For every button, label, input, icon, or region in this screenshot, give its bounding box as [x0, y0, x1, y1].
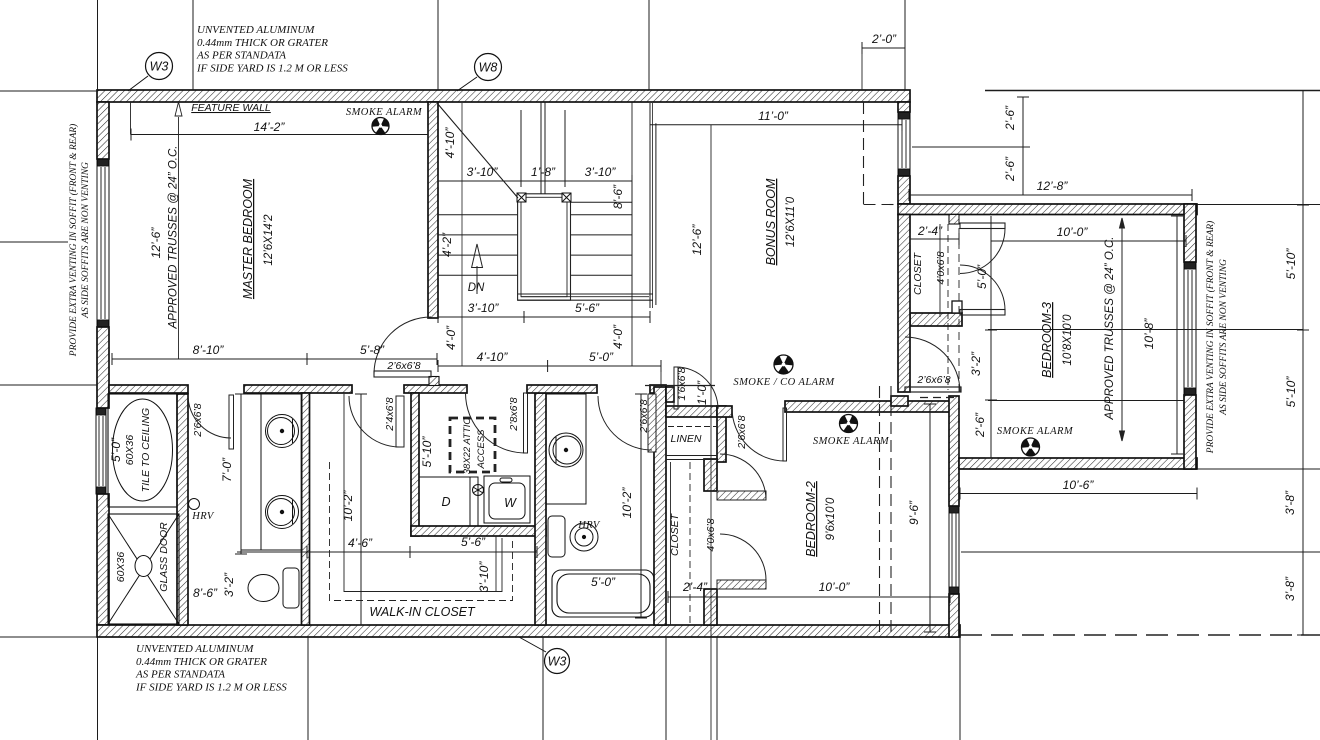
svg-text:10’-6”: 10’-6”	[1063, 478, 1095, 492]
door dash: bed3	[920, 397, 957, 399]
svg-text:12’-8”: 12’-8”	[1037, 179, 1069, 193]
stair treads left flight	[438, 215, 518, 276]
svg-text:BEDROOM-3: BEDROOM-3	[1040, 302, 1054, 378]
svg-text:3’-10”: 3’-10”	[477, 561, 491, 593]
window: master west	[97, 159, 109, 327]
dim line: bed3 10-0	[991, 235, 1186, 247]
wall: bath east / linen west	[654, 387, 666, 625]
callout W3 bottom	[519, 637, 570, 674]
dim line: ensuite 7-0	[235, 394, 247, 554]
smoke alarm bed2	[839, 415, 857, 433]
door leaf: bed3	[905, 387, 961, 392]
fixture: ensuite toilet	[248, 568, 299, 608]
wall: north exterior	[97, 90, 910, 102]
svg-text:11’-0”: 11’-0”	[758, 109, 789, 123]
door arc: bed2	[732, 408, 785, 461]
stair upper riser a	[540, 102, 542, 194]
margin line east: y204.5	[1197, 204, 1320, 206]
wall: linen east	[717, 408, 726, 462]
svg-text:W3: W3	[150, 60, 169, 74]
wall: ensuite north (master south w)	[109, 385, 188, 393]
dim line: 12-8	[909, 189, 1192, 201]
svg-text:10’-2”: 10’-2”	[341, 490, 355, 522]
grid line: stair wall top	[437, 0, 439, 90]
dim line: hall 4-10 5-0	[438, 360, 661, 372]
linen bottom line b	[666, 459, 717, 461]
fixture: bath toilet	[548, 516, 598, 557]
bonus open dashed vert	[863, 102, 865, 204]
svg-text:2’6x6’8: 2’6x6’8	[638, 399, 650, 433]
wall: closet2 east upper	[704, 459, 717, 491]
hall line y385.5	[645, 385, 715, 387]
svg-text:SMOKE ALARM: SMOKE ALARM	[346, 107, 423, 118]
svg-text:12’6X14’2: 12’6X14’2	[263, 214, 275, 266]
svg-text:3’-8”: 3’-8”	[1283, 490, 1297, 515]
dim line: closet3 2-4	[910, 233, 959, 245]
door arc: laundry	[466, 393, 526, 453]
linen bottom line a	[666, 455, 717, 457]
margin line west: y242	[0, 241, 68, 243]
wall: south exterior	[97, 625, 960, 637]
wall: stair west	[428, 102, 438, 318]
svg-text:5’-10”: 5’-10”	[420, 436, 434, 468]
wall: master south seg3	[404, 385, 467, 393]
margin line east: y552	[961, 551, 1320, 553]
fixture: dryer	[419, 477, 478, 526]
wic shelf line	[344, 394, 502, 592]
dim line: bath 10-2	[635, 394, 647, 618]
door arc: closet2 upper	[720, 454, 766, 500]
dim line: bed2 10-0	[668, 591, 950, 603]
svg-text:5’-8”: 5’-8”	[360, 343, 385, 357]
door leaf: bath	[648, 394, 656, 452]
grid line: note top	[192, 0, 194, 90]
svg-text:12’-6”: 12’-6”	[690, 224, 704, 256]
svg-text:GLASS DOOR: GLASS DOOR	[158, 522, 170, 592]
wall: step hall-bed2	[891, 396, 908, 406]
svg-text:APPROVED TRUSSES @ 24” O.C.: APPROVED TRUSSES @ 24” O.C.	[168, 146, 180, 330]
wic dashed rod	[330, 462, 513, 601]
attic access dashed box	[450, 418, 495, 472]
wall: bath north stub	[650, 385, 666, 393]
wall: laundry west	[411, 393, 419, 536]
fixture: bath sink	[549, 433, 583, 467]
svg-text:8’-10”: 8’-10”	[193, 343, 225, 357]
wall: bath north	[527, 385, 597, 393]
closet3 shelf line	[939, 224, 941, 317]
svg-text:2’6x6’8: 2’6x6’8	[386, 360, 420, 372]
svg-text:SMOKE ALARM: SMOKE ALARM	[813, 436, 890, 447]
margin line west: y385	[0, 384, 97, 386]
smoke alarm bed3	[1021, 438, 1039, 456]
svg-text:D: D	[441, 495, 450, 509]
grid line: west wall bottom	[97, 637, 99, 740]
svg-text:AS SIDE SOFFITS ARE NON VENTIN: AS SIDE SOFFITS ARE NON VENTING	[1219, 259, 1229, 416]
svg-text:5’-10”: 5’-10”	[1284, 376, 1298, 408]
svg-text:2’6x6’8: 2’6x6’8	[736, 415, 748, 449]
svg-text:2’6x6’8: 2’6x6’8	[192, 403, 204, 437]
svg-text:8’-6”: 8’-6”	[611, 184, 625, 209]
closet3 projection dashed	[958, 215, 960, 455]
fixture: bath vanity	[546, 394, 586, 504]
svg-text:PROVIDE EXTRA VENTING IN SOFFI: PROVIDE EXTRA VENTING IN SOFFIT (FRONT &…	[1205, 221, 1216, 454]
svg-text:4’-10”: 4’-10”	[477, 350, 509, 364]
wall: linen north	[666, 406, 726, 417]
window: bed3 jog	[898, 112, 910, 176]
svg-text:3’-8”: 3’-8”	[1283, 576, 1297, 601]
svg-text:5’-0”: 5’-0”	[591, 575, 616, 589]
door arc: bed3	[905, 337, 960, 392]
door leaf: wic corridor	[396, 396, 404, 447]
wic rod double line a	[495, 536, 497, 592]
bonus open dashed horiz	[864, 204, 899, 206]
svg-text:CLOSET: CLOSET	[669, 512, 681, 556]
grid line: bonus west top	[648, 0, 650, 90]
margin line east: y469	[1197, 468, 1320, 470]
margin line west: y637	[0, 636, 97, 638]
feature wall line	[130, 102, 132, 135]
svg-text:TILE TO CEILING: TILE TO CEILING	[140, 408, 152, 492]
stair flight edge line	[461, 103, 463, 366]
wall: bed3 east upper	[1184, 204, 1196, 262]
door arc: linen	[676, 367, 718, 409]
ext line: 2-0 left	[861, 48, 863, 90]
door leaf: closet2 lower	[717, 580, 766, 589]
wall: closet3 south	[910, 313, 962, 326]
smoke/co alarm bonus	[774, 355, 793, 374]
door leaf: linen 1-6	[674, 367, 678, 409]
svg-text:3’-2”: 3’-2”	[969, 351, 983, 376]
dim line: 2-0	[862, 42, 905, 54]
svg-text:60X36: 60X36	[115, 552, 127, 583]
wall: bed3-closet north	[898, 204, 1197, 215]
svg-text:1’-0”: 1’-0”	[695, 380, 709, 405]
stair dim ext left	[520, 110, 522, 181]
ext line: 2-6 mid	[912, 146, 1030, 148]
svg-text:HRV: HRV	[577, 520, 601, 531]
margin line east: y329.5	[988, 329, 1303, 331]
dim line: 4-6 5-6	[237, 546, 537, 558]
door leaf: closet2 upper	[717, 491, 766, 500]
svg-text:38X22 ATTIC: 38X22 ATTIC	[462, 418, 473, 475]
wall: bed3 west	[898, 215, 910, 393]
svg-text:5’-10”: 5’-10”	[1284, 248, 1298, 280]
wall: west exterior upper	[97, 102, 109, 159]
svg-text:4’-10”: 4’-10”	[443, 127, 457, 159]
svg-text:BEDROOM-2: BEDROOM-2	[804, 481, 818, 557]
svg-text:MASTER BEDROOM: MASTER BEDROOM	[241, 178, 255, 299]
dim line: 10-6	[960, 488, 1197, 500]
margin line west: y91	[0, 90, 97, 92]
dim line: stair top	[438, 175, 632, 187]
stair cut line x632	[631, 102, 633, 366]
wall: closet2 east lower	[704, 589, 717, 625]
door leaf: closet3 lower	[960, 310, 1005, 316]
dim line: bed2 9-6	[924, 404, 936, 632]
door leaf: ensuite	[229, 395, 234, 449]
closet2 rod dashed	[689, 462, 691, 625]
grid line: west wall top	[97, 0, 99, 90]
door arc: closet2 lower	[720, 534, 766, 580]
wall: closet3 south notch	[952, 301, 962, 313]
svg-text:5’-0”: 5’-0”	[589, 350, 614, 364]
stair east rail b	[652, 103, 654, 308]
wall: bed2 north	[785, 401, 950, 412]
svg-text:2’-4”: 2’-4”	[917, 224, 943, 238]
wall: west exterior mid	[97, 327, 109, 408]
svg-text:DN: DN	[468, 282, 485, 294]
wall: tub-vanity divider	[177, 394, 188, 625]
svg-text:14’-2”: 14’-2”	[254, 120, 286, 134]
svg-text:5’-6”: 5’-6”	[575, 301, 600, 315]
svg-text:2’-6”: 2’-6”	[1003, 156, 1017, 182]
svg-text:CLOSET: CLOSET	[912, 251, 924, 295]
svg-text:10’-0”: 10’-0”	[819, 580, 851, 594]
svg-text:2’8x6’8: 2’8x6’8	[508, 397, 520, 431]
dim line: 2-6 stack	[1017, 97, 1029, 195]
door arc: closet3 upper	[960, 229, 1005, 274]
svg-text:APPROVED TRUSSES @ 24” O.C.: APPROVED TRUSSES @ 24” O.C.	[1104, 237, 1116, 421]
svg-text:12’-6”: 12’-6”	[149, 227, 163, 259]
stair diagonal cut	[437, 103, 518, 198]
grid line: linen wall bottom	[665, 637, 667, 740]
svg-text:9’6x10’0: 9’6x10’0	[825, 497, 837, 540]
callout W8	[457, 54, 502, 92]
stair upper riser b	[544, 102, 546, 194]
stair newel post right	[562, 193, 571, 202]
wall: bed2 north stub	[717, 406, 732, 417]
margin line east: y90.5	[985, 90, 1320, 92]
fixture: washer	[484, 476, 530, 523]
bed2 truss dashed a	[879, 386, 881, 632]
callout W3 top	[128, 53, 173, 92]
wall: stair west foot block	[429, 377, 439, 386]
hall tick x661	[660, 363, 662, 386]
window: bed2 east	[949, 506, 959, 594]
svg-text:PROVIDE EXTRA VENTING IN SOFFI: PROVIDE EXTRA VENTING IN SOFFIT (FRONT &…	[68, 124, 79, 357]
svg-text:W3: W3	[548, 655, 567, 669]
wall: west exterior lower	[97, 494, 109, 625]
svg-text:4’-6”: 4’-6”	[348, 536, 373, 550]
svg-text:10’-2”: 10’-2”	[620, 487, 634, 519]
smoke alarm master	[372, 118, 389, 135]
stairwell opening	[518, 194, 653, 300]
svg-text:2’-0”: 2’-0”	[871, 32, 897, 46]
dim line: bed3 trusses arrow	[1120, 218, 1125, 441]
svg-text:5’-0”: 5’-0”	[109, 437, 123, 462]
svg-text:4’0x6’8: 4’0x6’8	[935, 251, 947, 284]
dim line: bed3 10-8	[1171, 216, 1183, 454]
projection line: bed3 sill y400	[988, 400, 1184, 402]
door arc: ensuite	[188, 395, 231, 438]
svg-text:5’-6”: 5’-6”	[461, 535, 486, 549]
dim line: master width 14-2	[131, 129, 428, 141]
svg-text:ACCESS: ACCESS	[476, 429, 487, 470]
svg-text:SMOKE / CO ALARM: SMOKE / CO ALARM	[733, 377, 835, 388]
closet3 rod dashed	[947, 224, 949, 390]
fixture: ensuite sink 2	[266, 496, 299, 529]
window: bed3 east	[1184, 262, 1196, 395]
svg-text:5’-0”: 5’-0”	[975, 264, 989, 289]
bonus west line	[655, 123, 657, 305]
stair DN arrow	[472, 244, 483, 294]
door arc: master-hall	[374, 317, 431, 374]
svg-text:BONUS ROOM: BONUS ROOM	[764, 178, 778, 265]
fixture: ensuite shower	[108, 514, 179, 624]
svg-text:10’8X10’0: 10’8X10’0	[1062, 314, 1074, 366]
window: ensuite west	[96, 408, 106, 494]
svg-text:10’-8”: 10’-8”	[1142, 318, 1156, 350]
wall: closet3 top notch	[949, 215, 959, 225]
svg-text:SMOKE ALARM: SMOKE ALARM	[997, 426, 1074, 437]
svg-text:4’-0”: 4’-0”	[444, 325, 458, 350]
svg-text:1’6x6’8: 1’6x6’8	[676, 367, 688, 400]
wall: bed3 west jog lower	[898, 176, 910, 204]
svg-text:2’-6”: 2’-6”	[1003, 105, 1017, 131]
wall: bath west	[535, 393, 546, 625]
svg-text:12’6X11’0: 12’6X11’0	[785, 196, 797, 247]
svg-text:1’-8”: 1’-8”	[531, 165, 556, 179]
svg-text:W8: W8	[479, 61, 498, 75]
margin dashed east: y635	[960, 634, 1320, 636]
wall: bed3 east lower	[1184, 395, 1196, 469]
svg-text:AS SIDE SOFFITS ARE NON VENTIN: AS SIDE SOFFITS ARE NON VENTING	[81, 162, 91, 319]
svg-text:7’-0”: 7’-0”	[220, 457, 234, 482]
svg-text:4’0x6’8: 4’0x6’8	[705, 518, 717, 551]
wall: master south seg2	[244, 385, 352, 393]
fixture: ensuite tub	[108, 394, 177, 507]
stair dim ext right	[564, 110, 566, 181]
svg-text:4’-0”: 4’-0”	[611, 324, 625, 349]
grid line: jog corner top	[904, 0, 906, 90]
door arc: bath	[598, 396, 652, 450]
svg-text:W: W	[504, 496, 517, 510]
wall: bed2 east upper	[949, 396, 959, 506]
stair treads right flight	[571, 202, 633, 275]
stair newel post left	[517, 193, 526, 202]
grid line: closet2 wall bottom	[716, 637, 718, 740]
svg-text:2’6x6’8: 2’6x6’8	[916, 374, 950, 386]
wall: ensuite east	[302, 393, 310, 625]
dim line: wic 10-2	[355, 394, 367, 625]
bed2 truss dashed b	[890, 386, 892, 632]
grid line: vanity wall bottom	[307, 637, 309, 740]
svg-text:2’4x6’8: 2’4x6’8	[384, 397, 396, 431]
fixture: ensuite sink 1	[266, 415, 299, 448]
svg-text:LINEN: LINEN	[671, 433, 702, 445]
grid line: bath wall bottom	[542, 637, 544, 740]
door leaf: bed2	[783, 408, 787, 461]
dim line: bonus 11-0	[650, 119, 902, 131]
svg-text:10’-0”: 10’-0”	[1057, 225, 1089, 239]
closet2 west line	[670, 462, 672, 625]
wall: bed3 south	[959, 458, 1197, 469]
svg-text:3’-10”: 3’-10”	[467, 165, 499, 179]
svg-text:3’-10”: 3’-10”	[585, 165, 617, 179]
dim line: stair 8-6	[626, 181, 638, 294]
svg-text:4’-2”: 4’-2”	[440, 232, 454, 257]
door arc: wic corridor	[349, 396, 400, 447]
linen shelf dashed	[668, 426, 717, 428]
fixture: bath tub	[552, 570, 654, 617]
stair east rail a	[649, 103, 651, 308]
dim line: bonus 12-6 grid	[710, 125, 712, 740]
svg-text:3’-2”: 3’-2”	[222, 572, 236, 597]
dim line: bed3 3-2 2-6	[985, 216, 997, 458]
svg-text:FEATURE WALL: FEATURE WALL	[191, 102, 271, 114]
dim line: right margin	[1297, 91, 1309, 636]
svg-text:2’-4”: 2’-4”	[682, 580, 708, 594]
fixture: ensuite vanity	[241, 394, 302, 550]
wall: bed2 east lower	[949, 594, 959, 637]
dim line: stair 3-10 5-6	[438, 311, 650, 323]
door arc: closet3 lower	[960, 265, 1005, 310]
fixture: laundry drain	[473, 485, 484, 496]
svg-text:WALK-IN CLOSET: WALK-IN CLOSET	[369, 605, 476, 619]
svg-text:2’-6”: 2’-6”	[973, 412, 987, 438]
svg-text:HRV: HRV	[191, 511, 215, 522]
svg-text:3’-10”: 3’-10”	[468, 301, 500, 315]
dim line: ensuite 8-10 5-8	[112, 353, 437, 365]
svg-text:9’-6”: 9’-6”	[907, 500, 921, 525]
wall: hall-linen block	[666, 387, 674, 402]
door leaf: master-hall	[374, 371, 431, 377]
fixture: ensuite HRV	[189, 499, 200, 510]
svg-text:60X36: 60X36	[124, 435, 136, 466]
grid line: bed2 east wall bottom	[959, 637, 961, 740]
door leaf: laundry	[524, 393, 528, 453]
dim line: master trusses arrow	[175, 102, 182, 359]
svg-text:8’-6”: 8’-6”	[193, 586, 218, 600]
door leaf: closet3 upper	[960, 223, 1005, 229]
wall: laundry south	[411, 526, 546, 536]
wall: bed3 west jog upper	[898, 102, 910, 112]
